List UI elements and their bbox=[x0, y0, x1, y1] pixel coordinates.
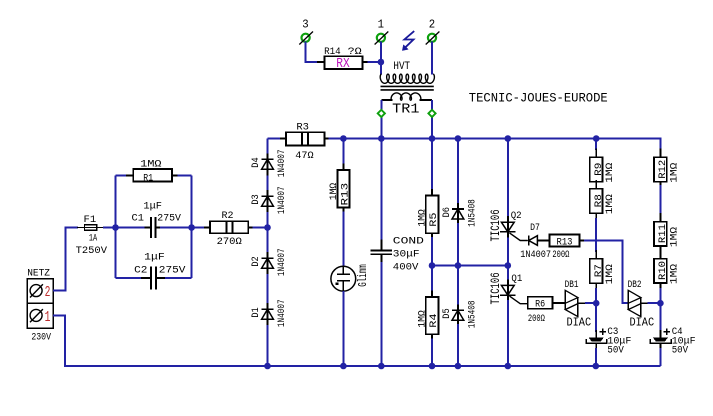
wire R13 branch top bbox=[342, 139, 344, 166]
svg-text:R9: R9 bbox=[594, 163, 605, 176]
resistor R12 bbox=[654, 149, 680, 189]
lamp Glimm bbox=[331, 264, 370, 291]
diode D1 bbox=[251, 299, 288, 327]
thyristor Q1 TIC106 bbox=[488, 272, 528, 304]
svg-text:1MΩ: 1MΩ bbox=[669, 227, 680, 247]
svg-text:?Ω: ?Ω bbox=[348, 47, 362, 58]
capacitor C2 bbox=[116, 252, 192, 289]
label 230V bbox=[31, 333, 51, 344]
connector NETZ box bbox=[27, 269, 53, 329]
wire R4 bottom bbox=[431, 339, 433, 367]
lightning-arrow symbol bbox=[402, 31, 414, 50]
junction C3-bottom bbox=[593, 363, 600, 370]
junction midbus-R5 bbox=[429, 262, 436, 269]
wire mid bus bbox=[432, 265, 508, 267]
svg-text:DB1: DB1 bbox=[565, 280, 579, 291]
wire pin1 down to primary bbox=[380, 41, 382, 74]
wire pin3 to R14 bbox=[306, 41, 325, 62]
svg-text:R5: R5 bbox=[429, 213, 440, 227]
pin 3 bbox=[299, 18, 313, 45]
wire node to C3 bbox=[595, 303, 597, 332]
svg-text:1MΩ: 1MΩ bbox=[329, 183, 340, 200]
svg-text:DB2: DB2 bbox=[628, 280, 642, 291]
junction cond-bottom bbox=[378, 363, 385, 370]
wire C3 bottom bbox=[595, 348, 597, 366]
svg-text:1MΩ: 1MΩ bbox=[605, 194, 616, 214]
junction topbus-D6 bbox=[455, 135, 462, 142]
svg-text:270Ω: 270Ω bbox=[217, 237, 242, 248]
wire R10 to node bbox=[659, 288, 661, 303]
transformer TR1 secondary winding bbox=[382, 93, 433, 100]
svg-text:NETZ: NETZ bbox=[27, 269, 50, 280]
junction topbus-R9 bbox=[593, 135, 600, 142]
svg-text:DIAC: DIAC bbox=[567, 315, 592, 329]
svg-text:1N4007: 1N4007 bbox=[277, 248, 288, 276]
pin 2 bbox=[426, 18, 440, 45]
wire R14 right bbox=[368, 61, 381, 63]
svg-text:1μF: 1μF bbox=[144, 252, 165, 263]
resistor R6 bbox=[528, 297, 565, 325]
svg-text:D1: D1 bbox=[251, 307, 262, 317]
wire terminal1 to bottom bus bbox=[53, 315, 267, 366]
svg-text:Q2: Q2 bbox=[511, 211, 522, 222]
junction D5-bottom bbox=[455, 363, 462, 370]
capacitor C4 bbox=[650, 327, 695, 357]
junction topbus-Q2 bbox=[505, 135, 512, 142]
wire R7 to node bbox=[595, 288, 597, 303]
svg-text:HVT: HVT bbox=[393, 61, 410, 73]
svg-text:D2: D2 bbox=[251, 256, 262, 266]
junction chain-bottom bbox=[264, 363, 271, 370]
svg-text:47Ω: 47Ω bbox=[295, 151, 313, 162]
svg-text:400V: 400V bbox=[393, 263, 420, 274]
wire node to C4 bbox=[659, 303, 661, 332]
diac DB2 bbox=[628, 280, 655, 329]
resistor R4 bbox=[417, 291, 440, 341]
svg-text:D7: D7 bbox=[530, 223, 540, 234]
svg-text:R12: R12 bbox=[658, 160, 669, 179]
svg-text:R10: R10 bbox=[658, 261, 669, 280]
junction topbus-R13 bbox=[340, 135, 347, 142]
svg-text:1MΩ: 1MΩ bbox=[605, 163, 616, 183]
wire R5 to midbus bbox=[431, 237, 433, 266]
junction topbus-trright bbox=[429, 135, 436, 142]
diode D4 bbox=[251, 150, 288, 178]
capacitor COND bbox=[370, 236, 424, 273]
diac DB1 bbox=[565, 280, 592, 329]
svg-text:TR1: TR1 bbox=[392, 102, 419, 118]
junction R2-chain bbox=[264, 224, 271, 231]
svg-text:1N5408: 1N5408 bbox=[467, 301, 478, 329]
wire D6 bottom bbox=[457, 223, 459, 266]
svg-text:1N4007: 1N4007 bbox=[277, 186, 288, 214]
svg-text:R3: R3 bbox=[296, 122, 309, 133]
svg-text:C1: C1 bbox=[132, 213, 144, 224]
wire Q1 bottom bbox=[507, 300, 509, 366]
title TECNIC-JOUES-EURODE bbox=[469, 90, 608, 105]
svg-text:1A: 1A bbox=[89, 233, 98, 244]
svg-text:1N5408: 1N5408 bbox=[467, 199, 478, 227]
resistor R1 bbox=[116, 159, 192, 184]
wire R5 top bbox=[431, 139, 433, 192]
svg-text:1μF: 1μF bbox=[143, 202, 162, 213]
svg-text:R8: R8 bbox=[594, 194, 605, 207]
wire cond top bbox=[380, 139, 382, 242]
wire cond bottom bbox=[380, 262, 382, 366]
resistor R8 bbox=[590, 180, 616, 220]
junction RX-pin1 bbox=[378, 59, 385, 66]
wire DB2 right bbox=[641, 302, 661, 304]
svg-text:275V: 275V bbox=[159, 265, 187, 276]
svg-text:Glimm: Glimm bbox=[356, 264, 370, 287]
junction right-net bbox=[188, 224, 195, 231]
terminal 2 bbox=[30, 283, 50, 301]
junction midbus-D5 bbox=[455, 262, 462, 269]
junction DB1 node bbox=[593, 300, 600, 307]
wire DB1 right bbox=[578, 302, 596, 304]
wire Q2 top bbox=[507, 139, 509, 218]
resistor R7 bbox=[590, 250, 616, 290]
svg-text:1MΩ: 1MΩ bbox=[669, 264, 680, 284]
svg-text:D3: D3 bbox=[251, 194, 262, 204]
diode D5 bbox=[442, 301, 479, 329]
diode D7 bbox=[520, 223, 551, 261]
pin diamond right bbox=[428, 110, 435, 117]
wire R13h to DB2 bbox=[580, 241, 629, 304]
capacitor C1 bbox=[116, 202, 192, 238]
capacitor C3 bbox=[586, 327, 631, 357]
svg-text:R13: R13 bbox=[557, 237, 573, 248]
resistor R3 bbox=[268, 122, 344, 162]
wire R13 to Glimm bbox=[342, 212, 344, 267]
wire bottom bus bbox=[268, 365, 661, 367]
svg-text:TECNIC-JOUES-EURODE: TECNIC-JOUES-EURODE bbox=[469, 90, 608, 105]
svg-text:1N4007: 1N4007 bbox=[277, 150, 288, 178]
svg-text:2: 2 bbox=[45, 283, 51, 301]
svg-text:50V: 50V bbox=[672, 345, 689, 356]
wire Q1 top bbox=[507, 266, 509, 281]
diode D2 bbox=[251, 248, 288, 276]
fuse F1 bbox=[76, 215, 108, 257]
svg-text:230V: 230V bbox=[31, 333, 51, 344]
wire pin2 down to primary bbox=[431, 41, 433, 74]
svg-text:3: 3 bbox=[302, 18, 308, 32]
label HVT bbox=[393, 61, 410, 73]
svg-text:1MΩ: 1MΩ bbox=[669, 163, 680, 183]
wire left loop vertical bbox=[115, 175, 117, 278]
wire D5 bottom bbox=[457, 324, 459, 366]
svg-text:RX: RX bbox=[336, 57, 349, 72]
resistor R14 RX bbox=[324, 47, 368, 72]
svg-text:1MΩ: 1MΩ bbox=[140, 159, 161, 170]
junction midbus-Q1 bbox=[505, 262, 512, 269]
junction topbus-trleft bbox=[378, 135, 385, 142]
resistor R9 bbox=[590, 149, 616, 189]
svg-text:2: 2 bbox=[429, 18, 435, 32]
svg-text:F1: F1 bbox=[84, 215, 97, 226]
resistor R5 bbox=[417, 189, 440, 239]
wire R12 to R11 bbox=[659, 185, 661, 215]
svg-text:R2: R2 bbox=[222, 211, 234, 222]
svg-text:DIAC: DIAC bbox=[630, 315, 655, 329]
diode D3 bbox=[251, 186, 288, 214]
svg-text:R11: R11 bbox=[658, 224, 669, 243]
wire C4 bottom bbox=[659, 348, 661, 366]
wire R9 top bbox=[595, 139, 597, 151]
resistor R10 bbox=[654, 250, 680, 290]
junction R4-bottom bbox=[429, 363, 436, 370]
svg-text:1MΩ: 1MΩ bbox=[605, 264, 616, 284]
transformer TR1 primary winding bbox=[380, 74, 434, 83]
svg-text:D4: D4 bbox=[251, 157, 262, 167]
wire R4 top bbox=[431, 266, 433, 293]
wire top bus bbox=[343, 139, 660, 151]
wire secondary right down bbox=[431, 100, 433, 139]
transformer TR1 core bbox=[381, 86, 434, 90]
resistor R13 gate bbox=[550, 235, 580, 262]
svg-text:TIC106: TIC106 bbox=[488, 209, 503, 241]
junction Q1-bottom bbox=[505, 363, 512, 370]
svg-text:200Ω: 200Ω bbox=[552, 250, 569, 261]
junction left-net bbox=[112, 224, 119, 231]
svg-text:200Ω: 200Ω bbox=[528, 314, 545, 325]
thyristor Q2 TIC106 bbox=[488, 209, 528, 241]
svg-text:D5: D5 bbox=[442, 308, 453, 318]
pin diamond left bbox=[378, 110, 385, 117]
pin 1 bbox=[375, 18, 389, 45]
junction glimm-bottom bbox=[340, 363, 347, 370]
wire Glimm to bottom bus bbox=[342, 291, 344, 366]
label TR1 bbox=[392, 102, 419, 118]
svg-text:1: 1 bbox=[378, 18, 384, 32]
svg-text:1MΩ: 1MΩ bbox=[417, 209, 428, 227]
svg-text:1N4007: 1N4007 bbox=[520, 250, 551, 261]
wire terminal2 to F1 bbox=[53, 228, 78, 291]
svg-text:R4: R4 bbox=[429, 314, 440, 328]
diode D6 bbox=[442, 199, 479, 227]
svg-text:C2: C2 bbox=[134, 265, 147, 276]
junction DB2 node bbox=[657, 300, 664, 307]
resistor R2 bbox=[192, 211, 268, 248]
svg-text:R6: R6 bbox=[535, 300, 545, 311]
svg-text:D6: D6 bbox=[442, 207, 453, 217]
wire F1 to node bbox=[103, 227, 116, 229]
svg-text:1N4007: 1N4007 bbox=[277, 299, 288, 327]
svg-text:TIC106: TIC106 bbox=[488, 272, 503, 304]
svg-text:1MΩ: 1MΩ bbox=[417, 310, 428, 328]
svg-text:T250V: T250V bbox=[76, 246, 108, 257]
svg-text:Q1: Q1 bbox=[511, 274, 522, 285]
svg-text:COND: COND bbox=[393, 236, 424, 247]
wire right loop vertical bbox=[191, 175, 193, 278]
svg-text:275V: 275V bbox=[157, 213, 182, 224]
svg-text:R13: R13 bbox=[341, 183, 352, 206]
wire D5 top bbox=[457, 266, 459, 306]
terminal 1 bbox=[30, 308, 50, 326]
wire R12 top bbox=[659, 139, 661, 151]
resistor R13 vertical bbox=[329, 164, 352, 214]
wire diode chain vertical bbox=[267, 139, 269, 367]
svg-text:50V: 50V bbox=[607, 345, 624, 356]
svg-text:R7: R7 bbox=[594, 264, 605, 277]
wire Q2 cathode to midbus bbox=[507, 238, 509, 266]
wire secondary left down bbox=[380, 100, 382, 139]
svg-text:1: 1 bbox=[45, 308, 51, 326]
resistor R11 bbox=[654, 213, 680, 253]
wire D6 top bbox=[457, 139, 459, 205]
svg-text:30μF: 30μF bbox=[393, 249, 420, 260]
svg-text:R1: R1 bbox=[143, 173, 153, 184]
wire R8 to R7 bbox=[595, 218, 597, 252]
